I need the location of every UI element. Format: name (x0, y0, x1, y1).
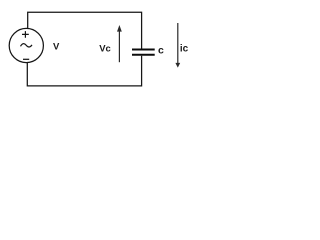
current arrow ic (175, 23, 180, 68)
wire top (28, 12, 142, 48)
voltage source sine symbol (21, 44, 33, 47)
capacitor C plates (132, 50, 155, 55)
svg-text:Vc: Vc (99, 44, 111, 55)
plus polarity mark (22, 31, 29, 38)
svg-text:V: V (53, 42, 60, 53)
voltage source V1 circle (9, 28, 43, 62)
svg-text:c: c (158, 45, 164, 57)
minus polarity mark (23, 58, 29, 60)
svg-text:ic: ic (180, 43, 189, 54)
voltage arrow Vc (117, 25, 122, 62)
wire bottom (27, 56, 141, 86)
